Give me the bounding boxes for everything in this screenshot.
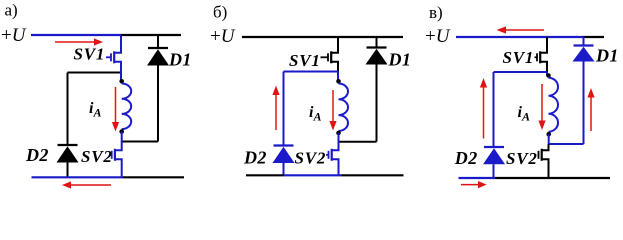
node bottom of inductor (panel b) — [336, 131, 341, 136]
wire +U rail black segment (panel a) — [121, 34, 181, 36]
svg-text:iA: iA — [89, 100, 101, 120]
transistor SV1 (panel b, black, off) — [321, 37, 339, 72]
wire blue horizontal tap (panel v) — [494, 71, 548, 73]
wire bottom rail black left segment (panel b) — [246, 174, 284, 176]
inductor L with current iA (panel v, blue) — [549, 78, 559, 132]
current arrow down at inductor (panel v) — [538, 84, 545, 130]
diode D1 (panel v, blue, on) — [573, 37, 595, 144]
svg-text:SV1: SV1 — [74, 45, 106, 64]
diode D1 (panel a, black, off) — [147, 35, 169, 142]
wire left branch blue vertical (panel b) — [283, 72, 285, 146]
node top of inductor (panel a) — [119, 79, 124, 84]
svg-text:в): в) — [429, 3, 443, 22]
wire left branch blue vertical (panel v) — [493, 72, 495, 147]
svg-text:б): б) — [213, 3, 227, 22]
wire blue from D1 to SV2 drain (panel v) — [549, 134, 584, 144]
wire bottom rail blue segment (panel v) — [459, 177, 496, 179]
diode D2 (panel a, black, off) — [57, 145, 79, 177]
svg-text:iA: iA — [518, 104, 530, 124]
current arrow up right of D1 (panel v) — [587, 88, 594, 131]
svg-text:а): а) — [5, 1, 18, 20]
svg-text:SV2: SV2 — [81, 147, 113, 166]
current arrow right under +U rail (panel a) — [55, 38, 103, 45]
svg-text:SV1: SV1 — [289, 51, 321, 70]
wire bottom rail black right segment (panel b) — [342, 174, 404, 176]
node top of inductor (panel v) — [546, 73, 551, 78]
svg-text:SV2: SV2 — [506, 149, 538, 168]
current arrow up at left branch (panel b) — [272, 86, 279, 131]
wire +U rail blue segment (panel v) — [456, 36, 584, 38]
wire bottom rail blue segment (panel b) — [284, 174, 342, 176]
wire blue horizontal tap (panel b) — [284, 71, 339, 73]
wire black from D1 to SV2 drain (panel b) — [340, 141, 377, 143]
wire bottom rail black segment (panel v) — [495, 177, 610, 179]
current arrow down at inductor (panel a) — [112, 87, 119, 132]
svg-text:+U: +U — [1, 25, 27, 46]
svg-text:D1: D1 — [388, 49, 412, 69]
wire blue from tap to inductor (panel b) — [337, 72, 339, 82]
wire black horizontal tap (panel a) — [68, 72, 121, 74]
diode D1 (panel b, black, off) — [366, 37, 388, 142]
transistor SV1 (panel v, black, off) — [535, 37, 548, 72]
diode D2 (panel v, blue, on) — [483, 147, 505, 178]
current arrow right under bottom rail (panel v) — [461, 181, 487, 188]
current arrow up at left branch (panel v) — [480, 78, 487, 139]
inductor L with current iA (panel b, blue) — [339, 84, 349, 131]
svg-text:D2: D2 — [25, 145, 49, 165]
wire black from D1 to inductor bottom (panel a) — [123, 141, 159, 143]
wire bottom rail blue segment (panel a) — [32, 176, 124, 178]
wire +U rail blue segment (panel a) — [31, 34, 121, 36]
diode D2 (panel b, blue, on) — [273, 146, 295, 176]
current arrow down at inductor (panel b) — [329, 90, 336, 131]
node bottom of inductor (panel v) — [546, 132, 551, 137]
current arrow left under bottom rail (panel a) — [62, 181, 111, 188]
node top of inductor (panel b) — [336, 79, 341, 84]
svg-text:+U: +U — [425, 26, 451, 47]
svg-text:D2: D2 — [243, 147, 267, 167]
node bottom of inductor (panel a) — [119, 129, 124, 134]
wire left branch black vertical (panel a) — [67, 73, 69, 146]
transistor SV2 (panel v, black, off) — [538, 144, 549, 178]
wire +U rail black (panel b) — [242, 36, 403, 38]
svg-text:+U: +U — [210, 26, 236, 47]
svg-text:SV2: SV2 — [295, 148, 327, 167]
svg-text:D1: D1 — [595, 46, 619, 66]
transistor SV2 (panel a, blue, on) — [111, 132, 122, 177]
current arrow left above +U rail (panel v) — [497, 26, 545, 33]
transistor SV1 (panel a, blue, on) — [106, 35, 121, 81]
svg-text:D2: D2 — [454, 148, 478, 168]
svg-text:iA: iA — [309, 104, 321, 124]
wire +U rail black segment (panel v) — [584, 36, 605, 38]
svg-text:D1: D1 — [168, 50, 192, 70]
wire blue from tap to inductor (panel v) — [546, 72, 548, 76]
inductor L with current iA (panel a, blue) — [122, 84, 132, 130]
svg-text:SV1: SV1 — [503, 48, 535, 67]
transistor SV2 (panel b, blue, on) — [326, 133, 339, 175]
wire bottom rail black segment (panel a) — [123, 176, 184, 178]
